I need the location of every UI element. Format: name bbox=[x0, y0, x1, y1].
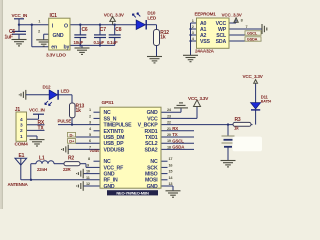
svg-text:7: 7 bbox=[246, 25, 248, 29]
svg-text:GND: GND bbox=[53, 33, 64, 39]
svg-text:15: 15 bbox=[169, 170, 173, 174]
svg-text:22nH: 22nH bbox=[37, 167, 47, 172]
svg-text:2: 2 bbox=[89, 114, 91, 118]
svg-text:by: by bbox=[64, 44, 70, 50]
svg-text:VUSB: VUSB bbox=[90, 149, 100, 153]
svg-text:12: 12 bbox=[86, 182, 90, 186]
svg-text:EXTINT0: EXTINT0 bbox=[104, 129, 124, 135]
svg-text:1k: 1k bbox=[160, 35, 166, 41]
svg-text:SDA2: SDA2 bbox=[144, 147, 157, 153]
svg-text:SCK: SCK bbox=[147, 165, 158, 171]
svg-text:VCC_3.3V: VCC_3.3V bbox=[188, 96, 209, 101]
svg-text:J1: J1 bbox=[15, 107, 21, 113]
svg-text:R2: R2 bbox=[68, 156, 74, 162]
svg-text:18: 18 bbox=[167, 145, 171, 149]
svg-text:LED: LED bbox=[147, 16, 156, 21]
svg-text:NEO-7M/NEO-M8N: NEO-7M/NEO-M8N bbox=[116, 190, 149, 195]
svg-text:GND: GND bbox=[104, 172, 115, 178]
svg-text:C6: C6 bbox=[82, 27, 88, 33]
svg-text:LED: LED bbox=[61, 88, 70, 93]
svg-text:GSDA: GSDA bbox=[172, 145, 185, 150]
svg-text:21: 21 bbox=[167, 127, 171, 131]
svg-text:D12: D12 bbox=[43, 84, 51, 89]
svg-text:8: 8 bbox=[88, 157, 90, 161]
svg-text:C7: C7 bbox=[100, 27, 106, 33]
svg-text:GND: GND bbox=[147, 184, 158, 190]
svg-text:6: 6 bbox=[89, 139, 91, 143]
svg-text:3.3V LDO: 3.3V LDO bbox=[46, 52, 66, 58]
svg-text:10: 10 bbox=[86, 170, 90, 174]
svg-text:VCC: VCC bbox=[147, 116, 158, 122]
svg-text:MISO: MISO bbox=[145, 172, 158, 178]
svg-text:SCL2: SCL2 bbox=[145, 141, 158, 147]
svg-text:ANTENNA: ANTENNA bbox=[8, 182, 29, 187]
svg-text:24AA32A: 24AA32A bbox=[195, 49, 215, 54]
svg-text:en: en bbox=[51, 44, 57, 50]
svg-text:3: 3 bbox=[89, 121, 91, 125]
svg-text:VCC_3.3V: VCC_3.3V bbox=[222, 12, 243, 17]
svg-text:13: 13 bbox=[169, 182, 173, 186]
svg-text:BAT54: BAT54 bbox=[261, 100, 271, 104]
svg-text:IC1: IC1 bbox=[50, 13, 58, 19]
svg-text:0.1uF: 0.1uF bbox=[94, 40, 105, 45]
svg-text:3: 3 bbox=[192, 31, 194, 35]
svg-text:EEPROM1: EEPROM1 bbox=[195, 11, 217, 16]
svg-text:5: 5 bbox=[89, 133, 91, 137]
svg-text:23: 23 bbox=[167, 114, 171, 118]
svg-text:1k: 1k bbox=[76, 108, 82, 114]
svg-text:L1: L1 bbox=[39, 156, 45, 162]
svg-text:11: 11 bbox=[86, 176, 90, 180]
svg-text:C8: C8 bbox=[115, 27, 121, 33]
svg-text:VCC_3.3V: VCC_3.3V bbox=[104, 13, 125, 18]
svg-text:16: 16 bbox=[169, 163, 173, 167]
svg-text:GSDA: GSDA bbox=[247, 37, 258, 42]
svg-text:9: 9 bbox=[87, 163, 89, 167]
svg-text:GSCL: GSCL bbox=[247, 31, 258, 36]
svg-text:TX: TX bbox=[172, 132, 177, 137]
svg-text:22R: 22R bbox=[63, 167, 71, 172]
svg-text:VSS: VSS bbox=[200, 39, 211, 45]
svg-text:1: 1 bbox=[89, 108, 91, 112]
svg-text:VCC_IN: VCC_IN bbox=[29, 108, 46, 113]
svg-text:GND: GND bbox=[104, 184, 115, 190]
svg-text:E1: E1 bbox=[19, 153, 25, 159]
svg-text:NC: NC bbox=[150, 159, 158, 165]
svg-text:22: 22 bbox=[167, 121, 171, 125]
svg-text:1uF: 1uF bbox=[5, 34, 13, 40]
svg-text:MOSI: MOSI bbox=[145, 178, 158, 184]
svg-text:20: 20 bbox=[167, 133, 171, 137]
svg-text:O: O bbox=[64, 24, 68, 30]
svg-text:RF_IN: RF_IN bbox=[104, 178, 118, 184]
svg-text:GPS1: GPS1 bbox=[102, 100, 115, 106]
svg-text:NC: NC bbox=[104, 110, 112, 116]
svg-text:0.1uF: 0.1uF bbox=[107, 40, 118, 45]
svg-text:PULSE: PULSE bbox=[58, 119, 72, 124]
svg-text:19: 19 bbox=[167, 139, 171, 143]
svg-text:10uF: 10uF bbox=[74, 40, 84, 45]
svg-text:VDDUSB: VDDUSB bbox=[104, 147, 125, 153]
svg-text:TX: TX bbox=[38, 126, 45, 132]
svg-text:VCC_RF: VCC_RF bbox=[104, 165, 124, 171]
svg-text:RX: RX bbox=[172, 126, 178, 131]
svg-text:R3: R3 bbox=[235, 117, 241, 123]
svg-text:TIMEPULSE: TIMEPULSE bbox=[104, 123, 133, 129]
svg-text:USB_DP: USB_DP bbox=[104, 141, 125, 147]
svg-text:8: 8 bbox=[241, 19, 243, 23]
svg-text:1k: 1k bbox=[234, 126, 239, 131]
svg-text:1: 1 bbox=[192, 19, 194, 23]
svg-text:RXD1: RXD1 bbox=[144, 129, 157, 135]
svg-text:VCC_3.3V: VCC_3.3V bbox=[243, 74, 264, 79]
svg-text:SS_N: SS_N bbox=[104, 116, 117, 122]
svg-text:2: 2 bbox=[192, 25, 194, 29]
svg-text:NC: NC bbox=[104, 159, 112, 165]
svg-text:D+: D+ bbox=[69, 139, 75, 144]
svg-text:17: 17 bbox=[169, 157, 173, 161]
svg-text:VCC_IN: VCC_IN bbox=[12, 13, 29, 18]
svg-text:GND: GND bbox=[147, 110, 158, 116]
svg-text:USB_DM: USB_DM bbox=[104, 135, 125, 141]
svg-text:GSCL: GSCL bbox=[172, 138, 184, 143]
svg-text:V_BCKP: V_BCKP bbox=[138, 123, 159, 129]
svg-text:TXD1: TXD1 bbox=[145, 135, 158, 141]
svg-text:COM4: COM4 bbox=[15, 142, 29, 148]
svg-text:SDA: SDA bbox=[216, 39, 227, 45]
